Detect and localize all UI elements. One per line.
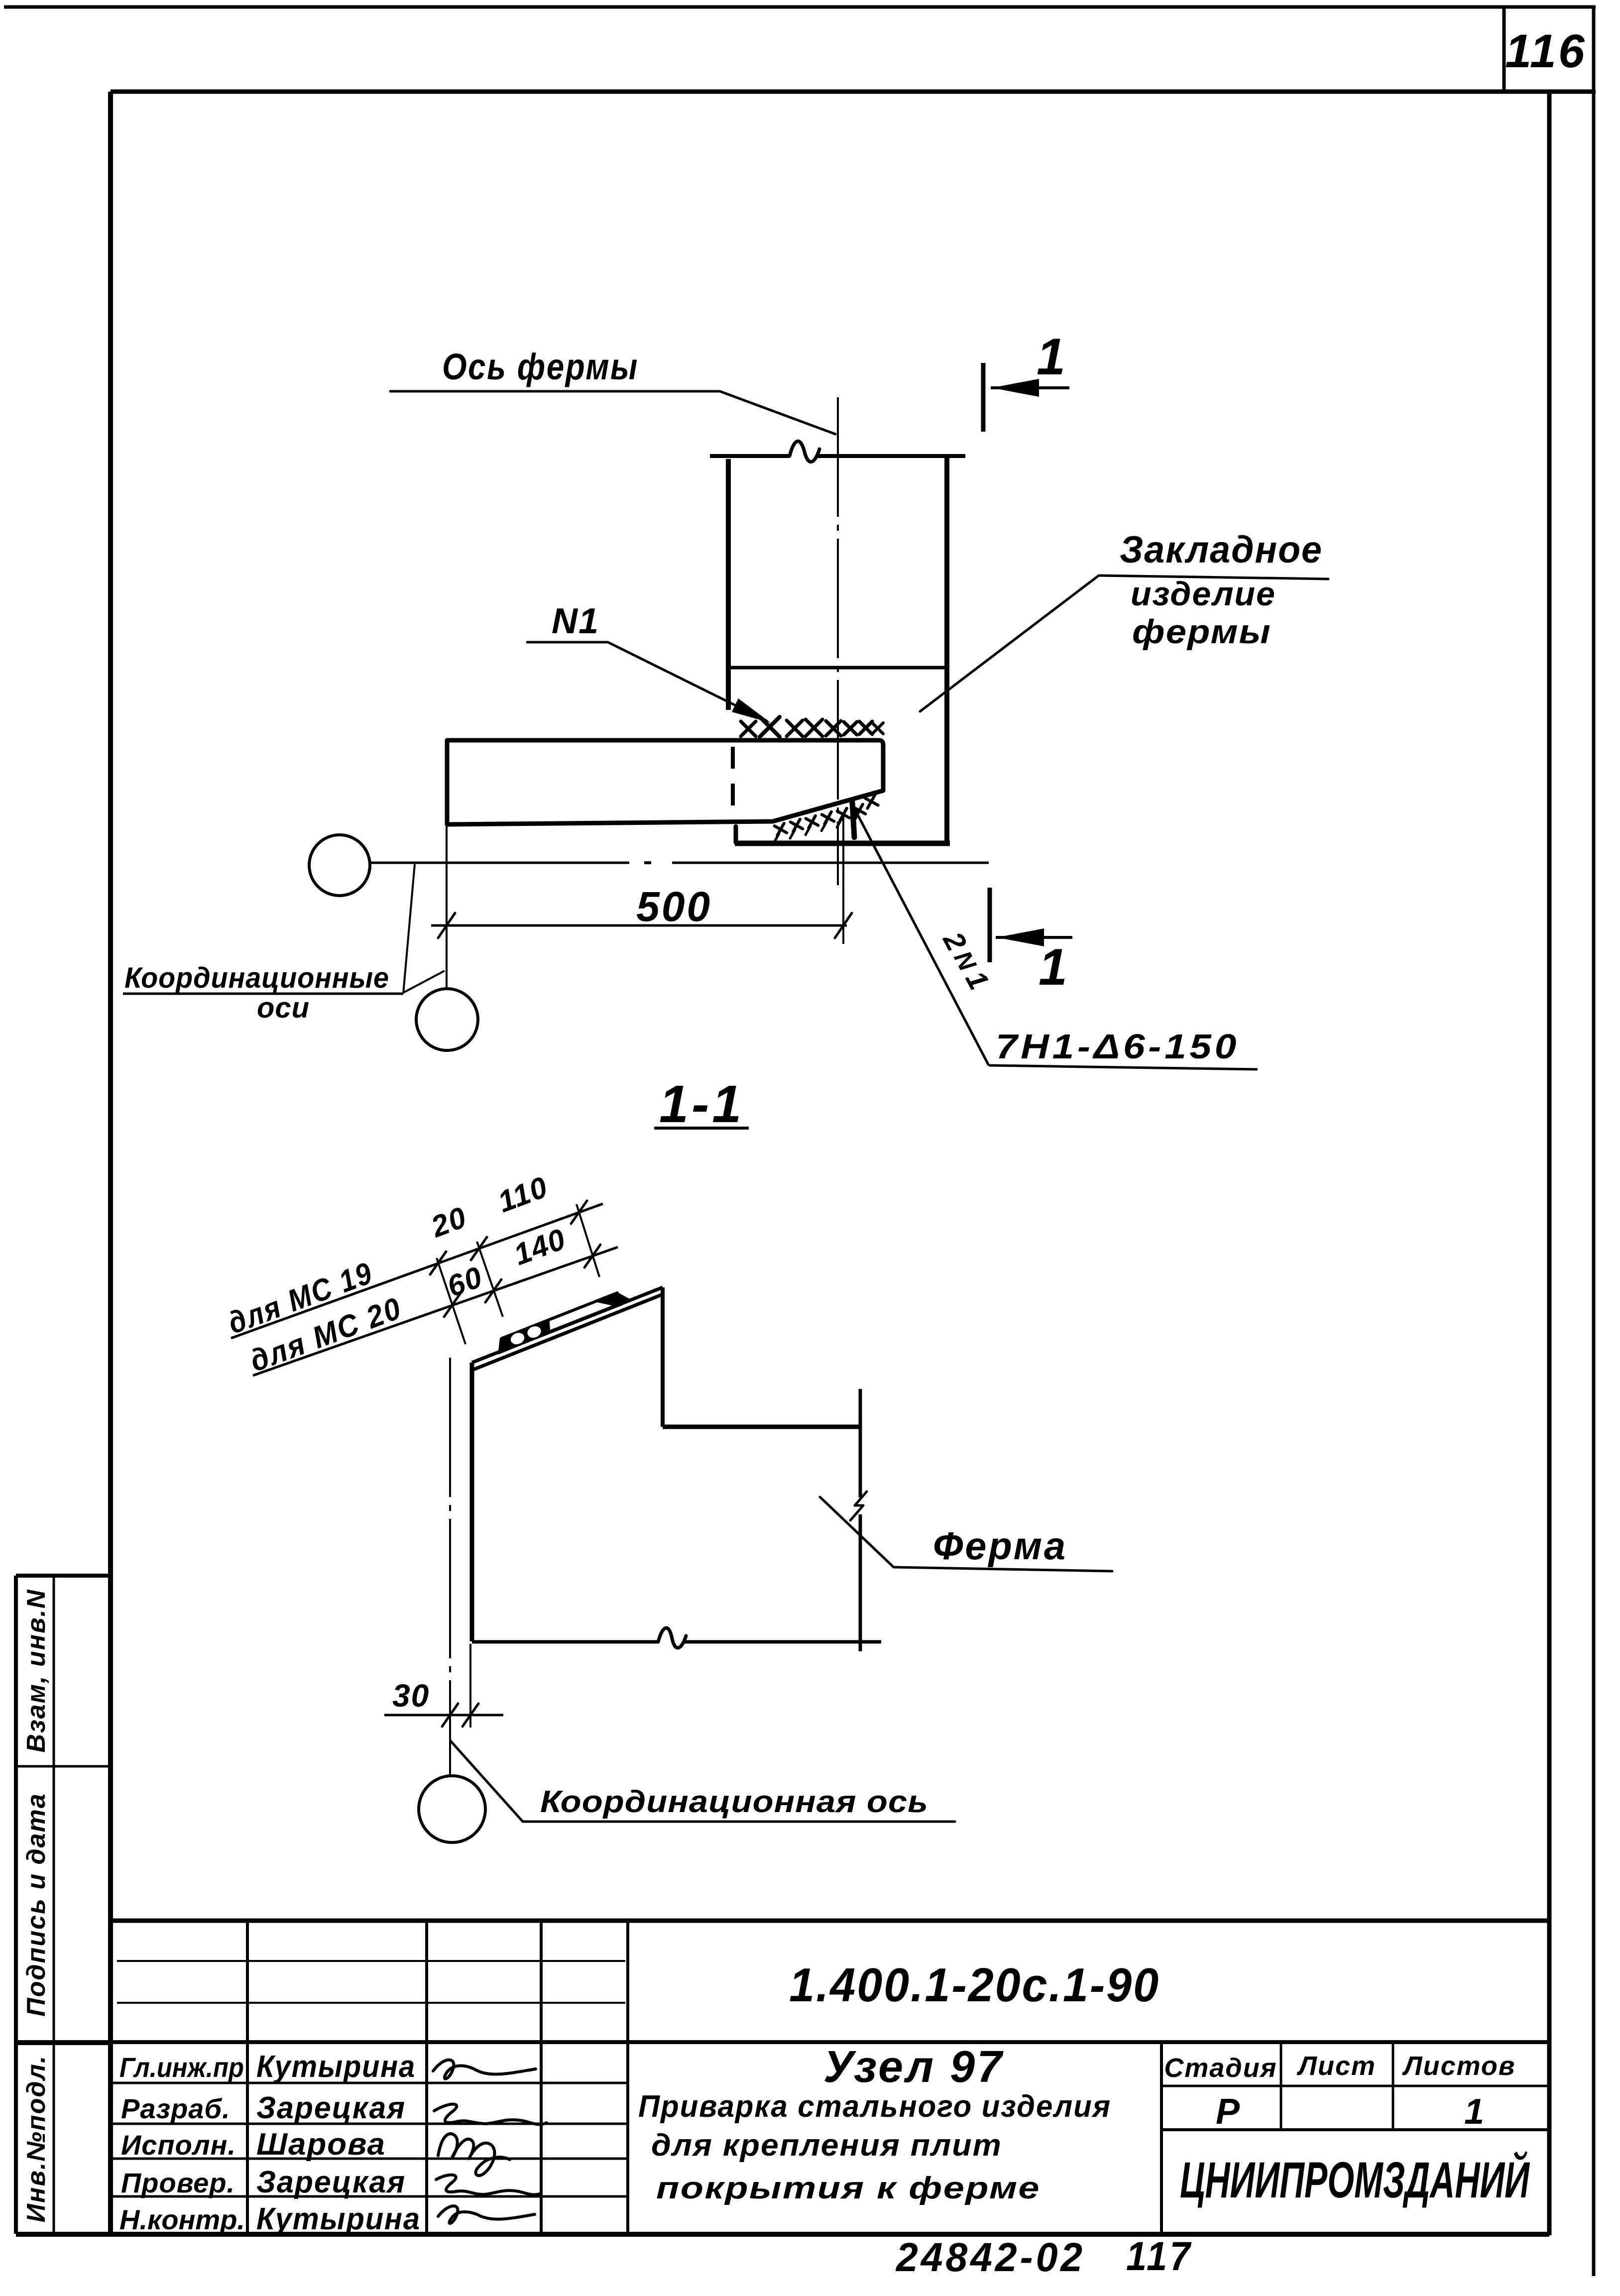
- svg-text:Закладное: Закладное: [1120, 529, 1323, 571]
- signature row 5: [438, 2206, 535, 2223]
- svg-text:Зарецкая: Зарецкая: [256, 2091, 406, 2125]
- svg-text:Провер.: Провер.: [121, 2167, 235, 2198]
- svg-text:1: 1: [1039, 938, 1067, 996]
- signature row 4: [436, 2175, 541, 2195]
- title block column line x=497: [246, 1921, 249, 2234]
- section chord left edge: [470, 1363, 474, 1641]
- section mark 1 (bottom): cut bar: [988, 888, 992, 962]
- svg-text:Стадия: Стадия: [1164, 2053, 1277, 2083]
- svg-text:Ось фермы: Ось фермы: [442, 346, 639, 387]
- main frame right border: [1547, 92, 1552, 2235]
- signature row 2: [434, 2104, 547, 2125]
- extension line E1: [437, 1258, 465, 1344]
- stage area column line x=2798: [1392, 2042, 1394, 2130]
- truss column left edge: [726, 459, 731, 710]
- coordination axis horizontal line: [370, 862, 629, 864]
- embedded plate boundary line inside truss: [730, 666, 946, 670]
- underline for 7Н1-Д6-150: [989, 1065, 1258, 1069]
- extension line E2: [477, 1242, 503, 1317]
- left margin divider (Подпись/Инв): [16, 2042, 111, 2045]
- section bottom edge with break squiggle: [472, 1640, 658, 1644]
- title block column line x=1087: [540, 1921, 543, 2234]
- svg-text:Ферма: Ферма: [933, 1524, 1067, 1568]
- staff row line 4: [111, 2195, 628, 2198]
- outer sheet right edge: [1592, 7, 1596, 2276]
- dimension line 30: [384, 1714, 503, 1717]
- steel plate МС19/МС20 outline: [447, 740, 883, 824]
- extension line right of 500: [842, 816, 844, 944]
- title block thick line above staff rows: [16, 2040, 1549, 2044]
- page number box divider: [1503, 7, 1506, 92]
- svg-text:Гл.инж.пр: Гл.инж.пр: [119, 2052, 244, 2083]
- svg-text:N1: N1: [552, 601, 599, 641]
- dimension line 500: [431, 924, 847, 927]
- svg-text:Исполн.: Исполн.: [121, 2129, 236, 2161]
- section raised part right vertical: [661, 1287, 665, 1427]
- slanted dimension line A (20 / 110): [231, 1204, 603, 1338]
- leader for N1 with arrow: [527, 642, 767, 721]
- svg-text:Координационная ось: Координационная ось: [540, 1785, 928, 1819]
- welded bracket on slanted plate: [494, 1289, 630, 1353]
- title block bottom line: [16, 2232, 1549, 2237]
- tick slashes on slanted dimensions: [430, 1252, 446, 1274]
- staff row line 3: [111, 2158, 628, 2160]
- staff row line 1: [111, 2082, 628, 2084]
- section right edge with break mark: [859, 1389, 862, 1497]
- weld X marks on plate top edge: [741, 721, 756, 736]
- svg-text:Подпись и дата: Подпись и дата: [22, 1793, 51, 2017]
- svg-text:24842-02: 24842-02: [895, 2235, 1085, 2280]
- leader underline for Ось фермы: [390, 391, 835, 434]
- stage area column line x=2573: [1280, 2042, 1282, 2130]
- main frame left border: [108, 92, 113, 2235]
- svg-text:Кутырина: Кутырина: [256, 2050, 416, 2084]
- leader for Координационная ось: [451, 1741, 955, 1822]
- svg-text:Лист: Лист: [1296, 2051, 1376, 2081]
- left margin divider (Взам/Подпись): [16, 1765, 111, 1768]
- svg-text:покрытия к ферме: покрытия к ферме: [656, 2171, 1041, 2205]
- svg-text:Разраб.: Разраб.: [121, 2093, 231, 2124]
- stage values underline: [1161, 2128, 1549, 2131]
- svg-text:1.400.1-20с.1-90: 1.400.1-20с.1-90: [789, 1958, 1160, 2012]
- left margin stamp box outline: [14, 1576, 18, 2234]
- staff row line 2: [111, 2123, 628, 2125]
- title block column line x=857: [425, 1921, 428, 2234]
- title block thin row line 1: [117, 1960, 625, 1962]
- stage header underline: [1161, 2085, 1549, 2087]
- svg-text:Координационные: Координационные: [124, 962, 389, 994]
- svg-text:Р: Р: [1216, 2092, 1241, 2132]
- svg-text:1-1: 1-1: [659, 1075, 744, 1134]
- section axis dash-dot vertical: [449, 1358, 451, 1775]
- underline for 1-1: [654, 1127, 749, 1130]
- leaders from Координационные оси: [403, 864, 415, 994]
- svg-text:Приварка стального изделия: Приварка стального изделия: [638, 2089, 1111, 2124]
- svg-text:Зарецкая: Зарецкая: [256, 2165, 406, 2199]
- svg-text:7Н1-Δ6-150: 7Н1-Δ6-150: [996, 1027, 1240, 1066]
- svg-text:Узел 97: Узел 97: [823, 2042, 1004, 2092]
- slanted dimension line B (60 / 140): [253, 1247, 618, 1376]
- svg-text:500: 500: [636, 883, 712, 930]
- svg-text:Шарова: Шарова: [256, 2127, 386, 2162]
- title block top line: [111, 1919, 1549, 1923]
- title block column line x=1261: [626, 1921, 629, 2234]
- svg-text:Инв.№подл.: Инв.№подл.: [22, 2055, 51, 2223]
- svg-text:116: 116: [1505, 25, 1586, 78]
- svg-text:Кутырина: Кутырина: [256, 2202, 421, 2236]
- truss column top edge with break squiggle: [710, 454, 790, 458]
- coordination axis circle (left): [309, 835, 370, 896]
- weld leader heavy tick at bevel: [852, 803, 854, 837]
- svg-text:фермы: фермы: [1132, 613, 1272, 651]
- svg-text:1: 1: [1037, 328, 1065, 386]
- signature row 3: [438, 2134, 510, 2176]
- extension line E3: [577, 1204, 599, 1277]
- outer sheet top edge: [4, 5, 1596, 9]
- title block thin row line 2: [117, 2002, 625, 2004]
- svg-text:оси: оси: [257, 992, 310, 1024]
- truss column bottom edge: [735, 841, 950, 846]
- section step horizontal: [663, 1425, 860, 1429]
- truss column right edge: [944, 458, 949, 842]
- underline for Координационные оси: [123, 993, 403, 995]
- leader for Ферма: [820, 1497, 1112, 1571]
- svg-text:117: 117: [1126, 2234, 1193, 2279]
- svg-text:ЦНИИПРОМЗДАНИЙ: ЦНИИПРОМЗДАНИЙ: [1180, 2151, 1530, 2208]
- truss axis dash-dot vertical line: [837, 397, 839, 885]
- stage area column line x=2333: [1160, 2042, 1163, 2234]
- svg-text:Взам, инв.N: Взам, инв.N: [22, 1589, 51, 1753]
- svg-text:30: 30: [392, 1678, 430, 1714]
- truss column left edge hidden (dashed): [731, 747, 735, 822]
- section mark 1 (top): cut bar: [981, 363, 986, 432]
- section mark 1 (top): arrow: [991, 386, 1069, 389]
- coordination axis circle (lower): [416, 989, 478, 1050]
- svg-text:Листов: Листов: [1401, 2051, 1515, 2081]
- extension line from plate left edge down to axis circle: [446, 826, 448, 989]
- coordination axis circle (section): [419, 1776, 485, 1842]
- svg-text:для крепления плит: для крепления плит: [651, 2128, 1002, 2163]
- svg-text:изделие: изделие: [1131, 575, 1276, 613]
- section mark 1 (bottom): arrow: [996, 936, 1072, 939]
- long leader to 7Н1-Д6-150: [853, 805, 989, 1065]
- leader for Закладное изделие: [920, 575, 1328, 711]
- svg-text:Н.контр.: Н.контр.: [119, 2204, 245, 2235]
- extension line right of 30: [469, 1644, 471, 1727]
- svg-text:1: 1: [1464, 2092, 1485, 2132]
- main frame top border: [111, 90, 1596, 94]
- weld marks on beveled edge: [775, 823, 787, 836]
- signature row 1: [433, 2060, 536, 2079]
- truss column lower-left corner below plate: [734, 826, 738, 842]
- section chord slanted top plate (double line): [472, 1287, 663, 1363]
